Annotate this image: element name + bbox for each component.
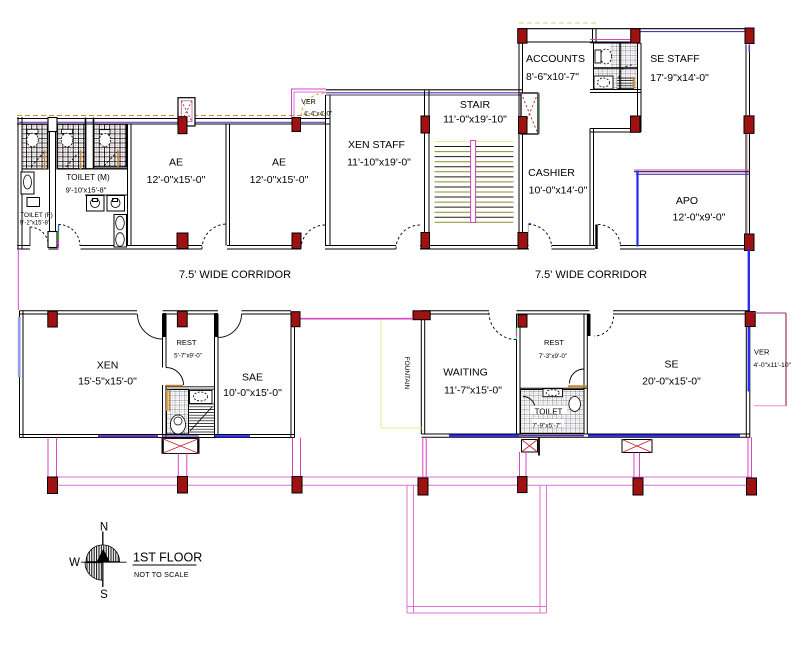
svg-text:TOILET (F): TOILET (F) (20, 212, 53, 219)
svg-text:AE: AE (169, 157, 183, 169)
svg-text:N: N (100, 522, 108, 534)
svg-text:7'-9"x5'-7": 7'-9"x5'-7" (532, 423, 562, 430)
svg-text:TOILET (M): TOILET (M) (66, 172, 110, 182)
svg-text:SAE: SAE (242, 372, 263, 384)
svg-text:AE: AE (272, 157, 286, 169)
svg-text:WAITING: WAITING (443, 367, 488, 379)
svg-text:12'-0"x15'-0": 12'-0"x15'-0" (250, 174, 309, 186)
svg-text:17'-9"x14'-0": 17'-9"x14'-0" (650, 72, 709, 84)
svg-text:APO: APO (676, 195, 698, 207)
svg-text:5'-7"x9'-0": 5'-7"x9'-0" (174, 353, 202, 360)
svg-text:11'-10"x19'-0": 11'-10"x19'-0" (347, 157, 411, 169)
svg-text:STAIR: STAIR (460, 99, 491, 111)
svg-text:SE: SE (664, 359, 678, 371)
svg-text:11'-7"x15'-0": 11'-7"x15'-0" (444, 385, 502, 397)
svg-text:REST: REST (544, 338, 564, 347)
svg-text:15'-5"x15'-0": 15'-5"x15'-0" (78, 376, 137, 388)
svg-text:12'-0"x9'-0": 12'-0"x9'-0" (673, 212, 726, 224)
svg-text:XEN STAFF: XEN STAFF (348, 139, 405, 151)
svg-text:11'-0"x19'-10": 11'-0"x19'-10" (443, 114, 507, 126)
svg-text:4'-4"x4'-0": 4'-4"x4'-0" (304, 110, 333, 117)
svg-text:NOT TO SCALE: NOT TO SCALE (134, 570, 189, 579)
svg-text:ACCOUNTS: ACCOUNTS (526, 53, 585, 65)
svg-text:7.5' WIDE CORRIDOR: 7.5' WIDE CORRIDOR (535, 269, 647, 281)
svg-text:8'-6"x10'-7": 8'-6"x10'-7" (526, 71, 579, 83)
svg-text:20'-0"x15'-0": 20'-0"x15'-0" (642, 376, 701, 388)
svg-text:VER: VER (754, 347, 770, 356)
svg-text:10'-0"x15'-0": 10'-0"x15'-0" (223, 387, 282, 399)
svg-text:1ST FLOOR: 1ST FLOOR (133, 551, 202, 565)
svg-text:7.5' WIDE CORRIDOR: 7.5' WIDE CORRIDOR (179, 269, 291, 281)
svg-text:S: S (100, 589, 108, 601)
svg-text:9'-2"x15'-8": 9'-2"x15'-8" (20, 221, 50, 227)
svg-text:12'-0"x15'-0": 12'-0"x15'-0" (147, 174, 206, 186)
svg-text:VER: VER (301, 99, 315, 106)
svg-text:SE STAFF: SE STAFF (650, 53, 699, 65)
svg-text:FOUNTAIN: FOUNTAIN (403, 357, 410, 390)
svg-text:TOILET: TOILET (535, 408, 563, 417)
svg-text:4'-0"x11'-10": 4'-0"x11'-10" (754, 362, 792, 369)
svg-text:REST: REST (176, 338, 196, 347)
svg-text:7'-3"x9'-0": 7'-3"x9'-0" (539, 353, 567, 360)
svg-text:CASHIER: CASHIER (528, 167, 575, 179)
svg-text:W: W (69, 557, 80, 569)
svg-text:XEN: XEN (97, 360, 119, 372)
svg-text:10'-0"x14'-0": 10'-0"x14'-0" (529, 185, 588, 197)
svg-text:9'-10'x15'-8": 9'-10'x15'-8" (66, 186, 107, 195)
